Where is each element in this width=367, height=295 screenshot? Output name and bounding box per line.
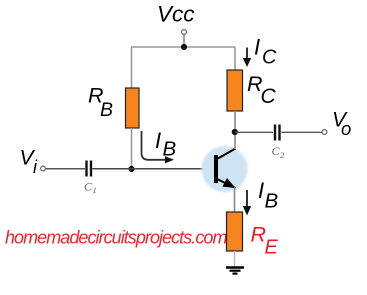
capacitor C1 [87,161,92,177]
arrow: IE current arrow (labelled IB) [246,190,248,207]
svg-text:B: B [100,99,113,121]
node: Vcc junction dot [181,44,187,50]
svg-text:B: B [265,190,279,213]
svg-text:I: I [254,35,260,60]
svg-text:C: C [262,47,277,69]
node: base junction dot [128,166,134,172]
capacitor C2 [275,125,280,141]
wire: input wire Vi to C1 [46,168,86,170]
resistor RC [227,70,243,111]
svg-text:homemadecircuitsprojects.com: homemadecircuitsprojects.com [5,228,227,248]
resistor RB [126,88,140,128]
svg-text:o: o [341,118,351,139]
node: collector junction dot [232,129,238,135]
svg-text:1: 1 [93,185,97,195]
wire: top horizontal rail Vcc [131,46,235,48]
svg-text:C: C [261,85,277,108]
svg-text:I: I [258,178,264,203]
wire: output wire to C2 [235,131,273,133]
wire: C2 to Vo terminal [282,131,323,133]
svg-text:E: E [265,237,279,259]
terminal: Vi open circle [41,166,46,171]
wire: right vertical upper (rail to RC) [234,47,236,70]
wire: left vertical upper (rail to RB) [131,47,133,89]
svg-text:Vcc: Vcc [157,2,195,27]
wire: left vertical lower (RB to base rail) [131,128,133,169]
wire: right vertical (RC to collector) [234,111,236,149]
svg-text:B: B [163,138,177,161]
wire: emitter vertical to RE [234,187,236,212]
wire: base rail C1 to transistor [93,168,215,170]
wire: RE to ground [234,251,236,267]
resistor RE [227,212,243,251]
svg-text:I: I [155,128,161,153]
arrow: IC current arrow [246,48,248,60]
wire: Vcc stub [183,34,185,47]
ground [226,268,244,274]
terminal: Vcc open circle [182,30,187,35]
transistor Q1: NPN [202,146,248,192]
arrow: IB hook arrow [142,131,167,160]
terminal: Vo open circle [322,130,327,135]
